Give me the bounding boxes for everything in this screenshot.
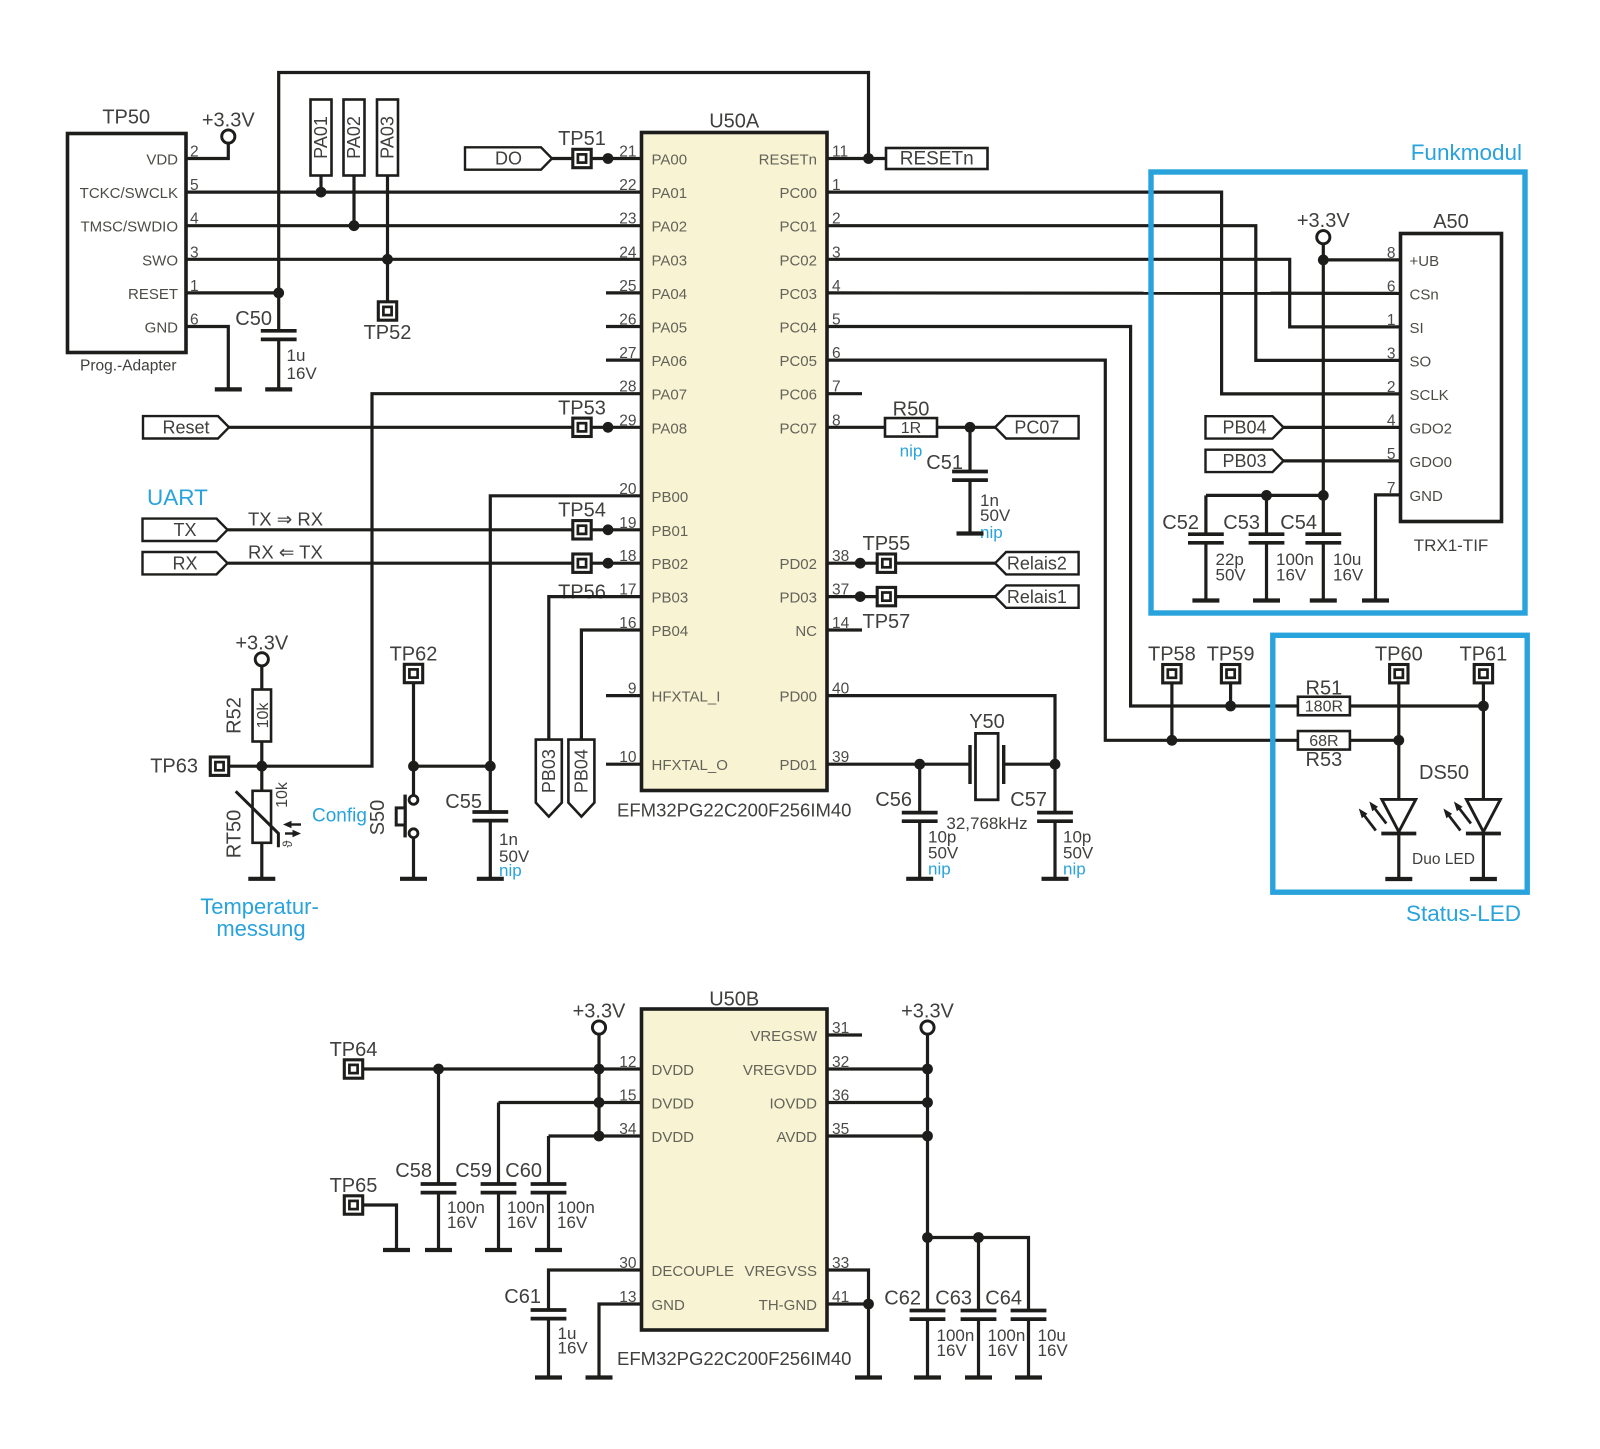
net flag Relais1	[995, 585, 1079, 607]
wire +3.3V right down to C62	[926, 1034, 929, 1311]
wire SWO to PA03	[186, 258, 642, 261]
ground (U50B GND)	[586, 1375, 613, 1379]
svg-text:22: 22	[619, 177, 636, 194]
ground (C61)	[535, 1375, 562, 1379]
connector TP50 Prog.-Adapter body	[68, 107, 187, 375]
svg-text:R51: R51	[1306, 678, 1343, 700]
capacitor C58	[395, 1069, 485, 1250]
node TP61 junction	[1478, 701, 1489, 712]
wire RESETn net: C50 node up to top rail and over to RESETn	[279, 73, 869, 293]
wire U50B GND down	[599, 1304, 642, 1378]
svg-text:8: 8	[1387, 245, 1396, 262]
wire A50 GND down	[1376, 495, 1401, 601]
svg-text:+3.3V: +3.3V	[573, 1001, 626, 1023]
svg-text:TP56: TP56	[558, 582, 606, 604]
pin stub PA04	[606, 291, 642, 294]
ground (C59)	[485, 1248, 512, 1252]
svg-text:TP58: TP58	[1148, 644, 1196, 666]
svg-text:TMSC/SWDIO: TMSC/SWDIO	[81, 219, 179, 236]
svg-text:+3.3V: +3.3V	[235, 632, 288, 654]
svg-text:DVDD: DVDD	[652, 1096, 695, 1113]
svg-text:TP65: TP65	[330, 1175, 378, 1197]
wire +3.3V left down	[597, 1034, 600, 1136]
svg-text:TP64: TP64	[330, 1039, 378, 1061]
svg-text:AVDD: AVDD	[776, 1129, 817, 1146]
pin stub PA05	[606, 325, 642, 328]
wire PA02 flag drop	[352, 176, 355, 226]
ground (TH-GND)	[855, 1375, 882, 1379]
wire RESETn pin to flag	[827, 157, 886, 160]
power +3.3V (A50)	[1297, 210, 1350, 244]
ground (C64)	[1015, 1375, 1042, 1379]
svg-text:RESET: RESET	[128, 286, 178, 303]
ground (LED B)	[1470, 877, 1497, 881]
svg-text:TP51: TP51	[558, 128, 606, 150]
IC U50B pin names/numbers	[619, 1020, 849, 1314]
testpoint TP55	[862, 533, 910, 572]
wire PC04 to R51	[827, 327, 1298, 707]
svg-text:+3.3V: +3.3V	[1297, 210, 1350, 232]
svg-text:PC02: PC02	[779, 252, 817, 269]
svg-text:C52: C52	[1162, 512, 1199, 534]
wire cap branch	[928, 1238, 1029, 1311]
wire TCKC/SWCLK to PA01	[186, 191, 642, 194]
svg-text:50V: 50V	[1216, 566, 1247, 585]
wire PB00 down to config node	[490, 496, 641, 766]
svg-text:21: 21	[619, 144, 636, 161]
node C55 junction	[485, 761, 496, 772]
wire TH-GND to ground	[827, 1304, 869, 1378]
svg-text:68R: 68R	[1309, 733, 1338, 750]
testpoint TP63	[150, 756, 229, 778]
svg-text:S50: S50	[367, 800, 389, 836]
ground (C51)	[957, 531, 984, 535]
svg-text:TP54: TP54	[558, 500, 606, 522]
pin stub PA06	[606, 359, 642, 362]
node TH-GND junction	[863, 1299, 874, 1310]
svg-text:Funkmodul: Funkmodul	[1411, 140, 1522, 165]
svg-text:TP63: TP63	[150, 756, 198, 778]
svg-text:PD00: PD00	[779, 689, 817, 706]
wire PD01 to crystal left	[827, 763, 970, 766]
net flag RX	[143, 552, 228, 574]
wire TP62 down	[412, 682, 415, 766]
svg-text:1R: 1R	[901, 420, 921, 437]
capacitor C51	[926, 427, 1011, 542]
svg-text:TP61: TP61	[1459, 644, 1507, 666]
ground (RT50)	[248, 877, 275, 881]
svg-text:Y50: Y50	[969, 711, 1005, 733]
svg-text:GND: GND	[1410, 488, 1444, 505]
svg-text:Relais2: Relais2	[1007, 553, 1067, 573]
svg-text:RT50: RT50	[224, 810, 246, 859]
svg-text:10k: 10k	[274, 781, 291, 808]
wire PC03 to A50 CSn	[827, 291, 1401, 295]
capacitor C59	[455, 1103, 545, 1251]
node TP58 junction	[1167, 735, 1178, 746]
thermistor theta arrows	[280, 821, 301, 848]
net flag PB03 (to GDO0)	[1206, 450, 1284, 472]
net flag PA03 (vertical)	[377, 100, 398, 176]
capacitor C62	[884, 1288, 974, 1378]
node cap branch junction	[922, 1232, 933, 1243]
wire PB03 to GDO0	[1284, 459, 1401, 462]
svg-text:PD01: PD01	[779, 757, 817, 774]
pin stub HFXTAL_O	[606, 763, 642, 766]
net flag PB04 (to GDO2)	[1206, 416, 1284, 438]
power +3.3V (U50B right)	[901, 1001, 954, 1035]
svg-text:PA05: PA05	[652, 320, 688, 337]
wire config node	[414, 765, 491, 768]
wire DECOUPLE to C61	[549, 1270, 642, 1310]
svg-text:A50: A50	[1433, 211, 1469, 233]
ground (C63)	[965, 1375, 992, 1379]
svg-text:16V: 16V	[287, 364, 318, 383]
svg-text:IOVDD: IOVDD	[769, 1096, 817, 1113]
svg-text:RX ⇐ TX: RX ⇐ TX	[248, 542, 323, 563]
capacitor C61	[504, 1286, 588, 1378]
node PA01 junction	[316, 187, 327, 198]
svg-text:SWO: SWO	[142, 252, 178, 269]
svg-text:TRX1-TIF: TRX1-TIF	[1414, 536, 1489, 555]
ground (TP65)	[383, 1248, 410, 1252]
wire PB04 to GDO2	[1284, 426, 1401, 429]
svg-text:U50B: U50B	[709, 989, 759, 1011]
svg-text:Status-LED: Status-LED	[1406, 901, 1521, 926]
wire R50 to PC07 flag	[937, 426, 995, 429]
wire TP59 down	[1229, 682, 1232, 706]
wire TP60 down to LED1	[1397, 682, 1400, 798]
svg-text:GDO0: GDO0	[1410, 454, 1453, 471]
wire PC05 to R53	[827, 360, 1298, 740]
svg-text:U50A: U50A	[709, 111, 760, 133]
svg-text:messung: messung	[216, 916, 305, 941]
power +3.3V (TP50 VDD)	[202, 110, 255, 144]
svg-text:+3.3V: +3.3V	[202, 110, 255, 132]
svg-text:NC: NC	[795, 623, 817, 640]
ground (A50 GND)	[1362, 598, 1389, 602]
wire PB04 to flag	[581, 630, 641, 740]
svg-text:TH-GND: TH-GND	[759, 1297, 817, 1314]
svg-text:SI: SI	[1410, 320, 1424, 337]
svg-text:R52: R52	[224, 697, 246, 734]
testpoint TP61	[1459, 644, 1507, 683]
ground (C54)	[1310, 598, 1337, 602]
svg-text:24: 24	[619, 244, 637, 261]
wire PB03 to flag	[549, 597, 642, 740]
node C58 junction	[433, 1064, 444, 1075]
svg-text:VREGSW: VREGSW	[750, 1028, 818, 1045]
svg-text:+3.3V: +3.3V	[901, 1001, 954, 1023]
wire C63 drop	[977, 1238, 980, 1311]
thermistor RT50	[224, 766, 292, 879]
svg-text:Reset: Reset	[162, 418, 209, 438]
svg-text:C64: C64	[985, 1288, 1022, 1310]
svg-text:R53: R53	[1306, 749, 1343, 771]
pin stub PC06	[827, 392, 862, 395]
testpoint TP60	[1375, 644, 1423, 683]
wire PD03 to Relais1	[827, 595, 995, 598]
svg-text:18: 18	[619, 548, 636, 565]
LED DS50 A	[1359, 799, 1417, 879]
testpoint TP62	[390, 644, 438, 683]
svg-text:16V: 16V	[558, 1339, 589, 1358]
testpoint TP58	[1148, 644, 1196, 683]
svg-text:TP52: TP52	[364, 322, 412, 344]
capacitor C53	[1223, 495, 1314, 600]
svg-text:VREGVSS: VREGVSS	[744, 1263, 817, 1280]
wire PC01 to A50 SO	[827, 226, 1401, 361]
svg-text:TCKC/SWCLK: TCKC/SWCLK	[80, 185, 178, 202]
svg-text:1u: 1u	[287, 346, 306, 365]
svg-text:16V: 16V	[557, 1213, 588, 1232]
testpoint TP51	[558, 128, 606, 168]
svg-text:PA08: PA08	[652, 420, 688, 437]
svg-text:16V: 16V	[447, 1213, 478, 1232]
svg-text:4: 4	[1387, 412, 1396, 429]
svg-text:PA03: PA03	[378, 116, 398, 159]
svg-text:RESETn: RESETn	[759, 152, 817, 169]
svg-text:C55: C55	[445, 791, 482, 813]
power +3.3V (U50B left)	[573, 1001, 626, 1035]
svg-text:Config: Config	[312, 806, 367, 827]
ground (TP50 GND)	[215, 387, 242, 391]
svg-text:180R: 180R	[1305, 699, 1343, 716]
svg-text:PC06: PC06	[779, 387, 817, 404]
node AVDD junction	[922, 1131, 933, 1142]
svg-text:CSn: CSn	[1410, 286, 1439, 303]
svg-text:nip: nip	[928, 860, 951, 879]
net flag Reset	[143, 416, 229, 438]
crystal Y50	[946, 711, 1055, 833]
svg-text:C57: C57	[1010, 789, 1047, 811]
net flag PB03 (vertical)	[536, 740, 562, 817]
node C54 junction	[1318, 490, 1329, 501]
capacitor C55	[445, 766, 530, 880]
wire PC02 to A50 SI	[827, 259, 1401, 327]
svg-text:PA01: PA01	[652, 185, 688, 202]
svg-text:ϑ: ϑ	[280, 840, 295, 848]
svg-text:C51: C51	[926, 452, 963, 474]
svg-text:DVDD: DVDD	[652, 1062, 695, 1079]
svg-text:PB04: PB04	[652, 623, 689, 640]
svg-text:PA03: PA03	[652, 252, 688, 269]
label Temperatur-messung	[200, 894, 319, 941]
testpoint TP59	[1207, 644, 1255, 683]
wire TX to PB01	[228, 528, 642, 531]
svg-text:EFM32PG22C200F256IM40: EFM32PG22C200F256IM40	[617, 800, 851, 821]
IC U50A body	[617, 111, 851, 821]
net flag PC07	[995, 416, 1079, 438]
svg-text:HFXTAL_O: HFXTAL_O	[652, 757, 728, 774]
svg-text:PC03: PC03	[779, 286, 817, 303]
resistor R52	[224, 690, 273, 742]
label DS50	[1419, 762, 1469, 784]
net flag RESETn	[886, 148, 988, 170]
node TP60 junction	[1393, 735, 1404, 746]
svg-text:HFXTAL_I: HFXTAL_I	[652, 689, 721, 706]
svg-text:SCLK: SCLK	[1410, 387, 1449, 404]
wire PD00 to crystal right	[827, 696, 1055, 765]
ground (LED A)	[1385, 877, 1412, 881]
wire +3.3V to R52	[260, 666, 263, 691]
node PA03 junction	[382, 254, 393, 265]
svg-text:VDD: VDD	[146, 152, 178, 169]
frame Funkmodul	[1151, 140, 1525, 613]
svg-text:PC04: PC04	[779, 320, 817, 337]
node TP55 junction	[855, 558, 866, 569]
wire IOVDD	[827, 1101, 928, 1104]
svg-text:PB03: PB03	[652, 590, 689, 607]
net flag Relais2	[995, 552, 1079, 574]
node +3.3V left junction 1	[594, 1064, 605, 1075]
frame Status-LED	[1273, 635, 1527, 926]
node S50 junction	[408, 761, 419, 772]
svg-text:RESETn: RESETn	[900, 149, 974, 170]
wire TP50 GND down	[186, 327, 228, 390]
ground (S50)	[400, 877, 427, 881]
ground (C53)	[1253, 598, 1280, 602]
svg-text:C54: C54	[1280, 512, 1317, 534]
svg-text:Duo LED: Duo LED	[1412, 851, 1475, 868]
svg-text:PD03: PD03	[779, 590, 817, 607]
svg-text:TP59: TP59	[1207, 644, 1255, 666]
svg-text:7: 7	[1387, 480, 1396, 497]
svg-text:TX: TX	[173, 520, 196, 540]
svg-text:PB00: PB00	[652, 489, 689, 506]
net flag PA02 (vertical)	[344, 100, 365, 176]
capacitor C60	[505, 1136, 595, 1250]
svg-text:+UB: +UB	[1410, 253, 1440, 270]
label RX-TX direction	[248, 542, 323, 563]
svg-text:C50: C50	[235, 308, 272, 330]
svg-text:EFM32PG22C200F256IM40: EFM32PG22C200F256IM40	[617, 1348, 851, 1369]
wire PA03 flag drop to TP52	[386, 176, 389, 302]
pin stub VREGSW	[827, 1033, 862, 1036]
svg-text:PC00: PC00	[779, 185, 817, 202]
svg-text:16V: 16V	[937, 1341, 968, 1360]
svg-text:C56: C56	[875, 789, 912, 811]
node C51 junction	[965, 422, 976, 433]
resistor R50	[885, 399, 937, 461]
svg-text:PA02: PA02	[344, 116, 364, 159]
svg-text:16V: 16V	[1276, 566, 1307, 585]
svg-text:19: 19	[619, 515, 636, 532]
power +3.3V (R52)	[235, 632, 288, 666]
node TP59 junction	[1225, 701, 1236, 712]
ground (C52)	[1192, 598, 1219, 602]
svg-text:23: 23	[619, 211, 636, 228]
svg-text:TP60: TP60	[1375, 644, 1423, 666]
svg-text:Prog.-Adapter: Prog.-Adapter	[80, 358, 177, 375]
wire AVDD	[827, 1134, 928, 1137]
testpoint TP53	[558, 398, 606, 437]
wire R53 to TP60 column	[1350, 739, 1399, 742]
svg-text:TP57: TP57	[862, 611, 910, 633]
wire RX to PB02	[228, 562, 642, 565]
ground (C57)	[1042, 877, 1069, 881]
pin stub NC	[827, 628, 862, 631]
svg-text:PB04: PB04	[572, 749, 592, 793]
svg-text:10k: 10k	[255, 702, 272, 729]
IC U50B body	[617, 989, 851, 1370]
node TP51 junction	[603, 153, 614, 164]
net flag PA01 (vertical)	[311, 100, 332, 176]
svg-text:6: 6	[1387, 278, 1396, 295]
wire DO to PA00	[552, 157, 642, 160]
testpoint TP56	[558, 554, 606, 604]
node IOVDD junction	[922, 1097, 933, 1108]
testpoint TP65	[330, 1175, 378, 1214]
capacitor C57	[1010, 764, 1094, 879]
LED DS50 B	[1443, 799, 1501, 879]
svg-text:1: 1	[1387, 312, 1396, 329]
wire TP64 to DVDD 12	[362, 1067, 642, 1070]
node C53 junction	[1261, 490, 1272, 501]
node PA02 junction	[349, 220, 360, 231]
svg-text:PD02: PD02	[779, 556, 817, 573]
pin stub HFXTAL_I	[606, 694, 642, 697]
svg-text:PC07: PC07	[1014, 418, 1059, 438]
svg-text:5: 5	[1387, 446, 1396, 463]
wire PA07 to temperature node	[228, 394, 642, 767]
svg-text:16V: 16V	[507, 1213, 538, 1232]
svg-text:PC07: PC07	[779, 420, 817, 437]
switch S50	[367, 766, 418, 879]
svg-text:2: 2	[1387, 379, 1396, 396]
ground (C56)	[906, 877, 933, 881]
svg-text:C59: C59	[455, 1160, 492, 1182]
node C56 junction	[914, 759, 925, 770]
svg-text:PA02: PA02	[652, 219, 688, 236]
svg-text:DO: DO	[495, 149, 522, 169]
node +UB junction	[1318, 255, 1329, 266]
svg-text:DECOUPLE: DECOUPLE	[652, 1263, 735, 1280]
wire VREGVSS down	[827, 1270, 869, 1304]
node TP54 junction	[603, 524, 614, 535]
svg-text:PA06: PA06	[652, 353, 688, 370]
label UART	[147, 485, 208, 510]
wire TP65 to ground	[362, 1205, 397, 1250]
wire VDD to +3.3V	[186, 143, 228, 159]
node RESETn junction	[863, 153, 874, 164]
svg-text:C61: C61	[504, 1286, 541, 1308]
node TP57 junction	[855, 591, 866, 602]
svg-text:PB03: PB03	[1222, 451, 1266, 471]
node TP53 junction	[603, 422, 614, 433]
resistor R51	[1298, 678, 1350, 716]
svg-text:DVDD: DVDD	[652, 1129, 695, 1146]
connector TP50 pin names and numbers	[80, 144, 199, 337]
wire R52 to node	[260, 742, 263, 767]
node C63 junction	[973, 1232, 984, 1243]
wire PA01 flag drop	[319, 176, 322, 193]
wire TP50 RESET to node	[186, 291, 279, 294]
ground (C55)	[477, 877, 504, 881]
svg-text:R50: R50	[893, 399, 930, 421]
testpoint TP54	[558, 500, 606, 540]
svg-text:PC01: PC01	[779, 219, 817, 236]
wire +3.3V down to cap rail	[1322, 243, 1325, 495]
svg-text:PA07: PA07	[652, 387, 688, 404]
node +3.3V left junction 3	[594, 1131, 605, 1142]
svg-text:C63: C63	[935, 1288, 972, 1310]
ground (C60)	[535, 1248, 562, 1252]
node RESET/C50 junction	[273, 288, 284, 299]
wire PC00 to A50 SCLK	[827, 192, 1401, 394]
svg-text:Relais1: Relais1	[1007, 587, 1067, 607]
svg-text:PB01: PB01	[652, 523, 689, 540]
